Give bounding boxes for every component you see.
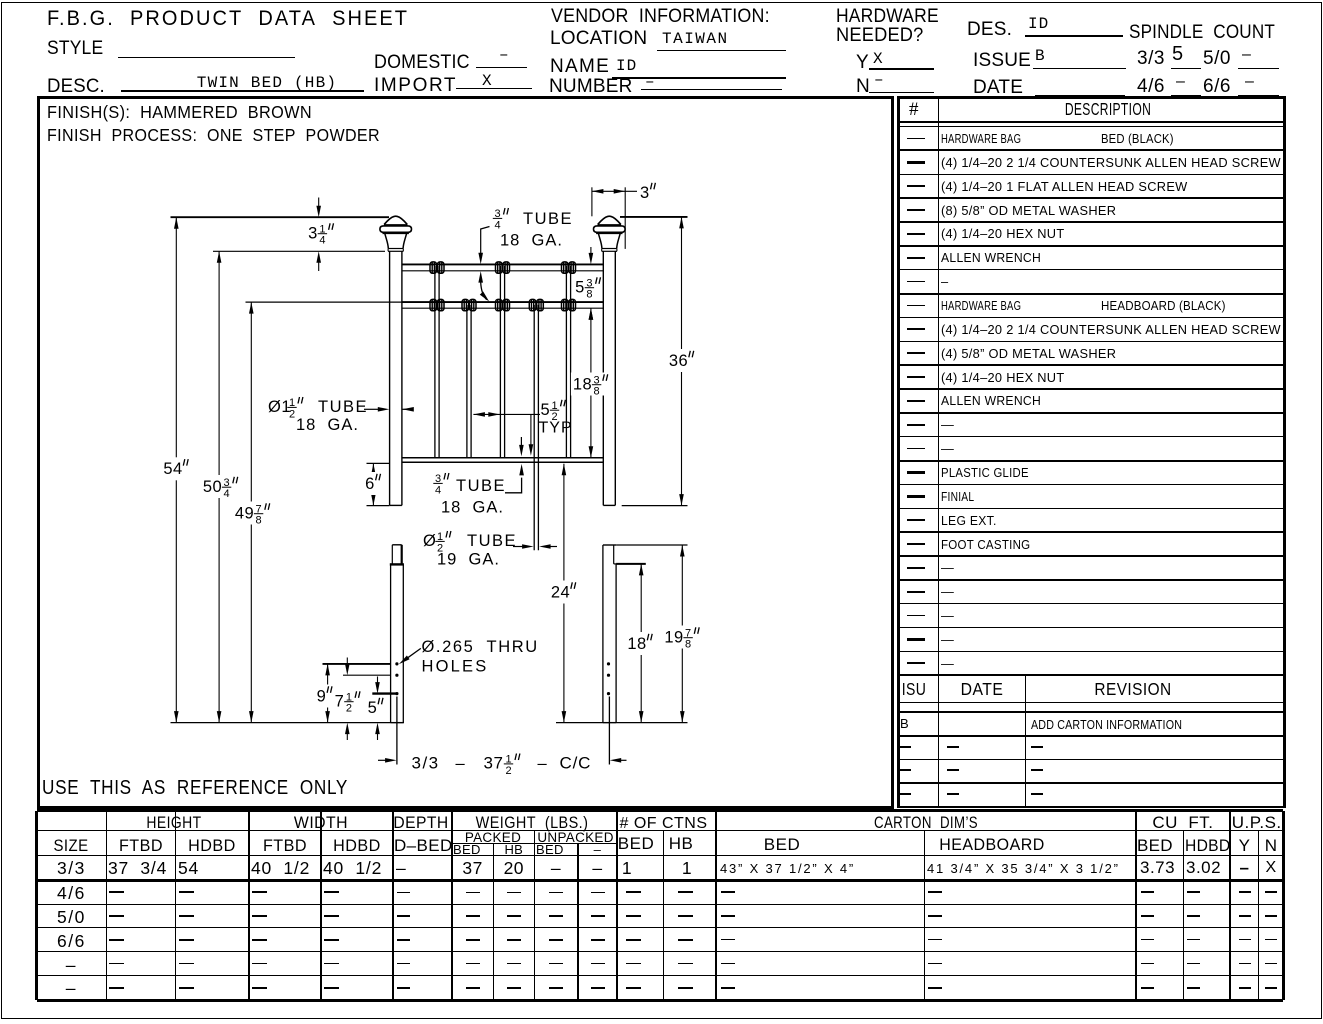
dim 3 1/4 (finial height): [318, 198, 320, 207]
dim 18 3/8: [590, 308, 592, 458]
STYLE field: [47, 39, 103, 60]
svg-text:5: 5: [575, 278, 585, 296]
dim 19 7/8: [616, 544, 687, 546]
IMPORT field: [374, 76, 457, 97]
svg-text:TUBE: TUBE: [467, 532, 517, 550]
collar cluster at (437,305.1): [430, 299, 437, 310]
svg-text:2: 2: [346, 703, 352, 715]
bottom table data rows: [0, 859, 271, 878]
svg-text:8: 8: [685, 639, 691, 651]
dim 6: [367, 462, 390, 464]
DESC field: [47, 77, 105, 98]
rail 1 (3/4 tube): [402, 263, 603, 265]
finial on post at x=395.7: [384, 216, 407, 224]
svg-text:18 GA.: 18 GA.: [500, 232, 563, 250]
svg-text:C/C: C/C: [560, 754, 592, 773]
svg-text:Ø.265 THRU: Ø.265 THRU: [422, 638, 539, 656]
ground baseline: [171, 722, 405, 724]
svg-text:9: 9: [317, 687, 327, 705]
spindle at x=437: [434, 266, 436, 458]
left leg centerline: [396, 697, 398, 765]
collar cluster at (568.5,267.6): [562, 262, 569, 273]
svg-text:TUBE: TUBE: [456, 477, 506, 495]
svg-text:Ø: Ø: [423, 532, 437, 550]
dim 36: [620, 216, 688, 218]
dim 49 7/8: [246, 301, 402, 303]
svg-text:–: –: [456, 755, 466, 773]
right leg holes: [607, 662, 610, 665]
collar cluster at (502.5,305.1): [496, 299, 503, 310]
collar cluster at (437,267.6): [430, 262, 437, 273]
drawing box frame: [37, 96, 894, 809]
svg-text:4: 4: [319, 235, 325, 247]
left leg holes: [395, 662, 398, 665]
collar cluster at (568.5,305.1): [562, 299, 569, 310]
spindle at x=502.5: [499, 266, 501, 458]
VENDOR INFORMATION: [551, 7, 770, 28]
dim 5 1/2 TYP: [473, 413, 540, 415]
revision row B: [897, 735, 1285, 737]
spindle at x=568.5: [565, 266, 567, 458]
collar cluster at (469,305.1): [462, 299, 469, 310]
revision dash rows: [897, 759, 1285, 761]
svg-text:37: 37: [484, 754, 504, 773]
dim 3 (finial width): [591, 187, 593, 216]
svg-text:TYP: TYP: [539, 420, 573, 437]
title: [47, 7, 409, 30]
svg-text:HOLES: HOLES: [422, 658, 489, 676]
bottom table frame: [37, 809, 1284, 812]
collar cluster at (536.3,305.1): [529, 299, 536, 310]
DOMESTIC field: [374, 53, 470, 74]
description header row: [970, 100, 1246, 119]
spindle 4/6 row: [1137, 77, 1165, 98]
lower left leg: [390, 564, 392, 722]
dim 9: [323, 663, 391, 665]
ISSUE field: [973, 51, 1031, 72]
svg-text:18 GA.: 18 GA.: [296, 416, 359, 434]
DATE field: [973, 78, 1023, 99]
spindle 3/3 row: [1137, 49, 1165, 70]
svg-text:2: 2: [505, 765, 511, 777]
dim 50 3/4: [213, 250, 385, 252]
svg-text:4: 4: [494, 219, 500, 231]
SPINDLE COUNT: [1129, 23, 1275, 44]
long drop rod (1/2 tube): [533, 305, 535, 550]
svg-text:19 GA.: 19 GA.: [437, 551, 500, 569]
finial on post at x=609.3: [598, 216, 621, 224]
svg-text:8: 8: [594, 386, 600, 398]
svg-text:3/3: 3/3: [412, 754, 440, 773]
svg-text:TUBE: TUBE: [318, 398, 368, 416]
dim 5: [372, 692, 396, 694]
rail 2: [402, 301, 603, 303]
bottom table header texts: [10, 814, 338, 832]
svg-text:5: 5: [368, 699, 378, 717]
svg-text:8: 8: [256, 515, 262, 527]
right post: [602, 251, 604, 505]
svg-text:18: 18: [627, 635, 646, 653]
svg-text:8: 8: [586, 289, 592, 301]
svg-text:4: 4: [435, 484, 441, 496]
svg-text:18: 18: [573, 375, 592, 393]
dim 54in: [171, 216, 390, 218]
description table frame: [897, 96, 900, 808]
svg-text:5: 5: [541, 401, 551, 419]
collar cluster at (502.5,267.6): [496, 262, 503, 273]
svg-text:3: 3: [640, 184, 650, 202]
dim 5 3/8: [590, 247, 592, 253]
svg-text:4: 4: [224, 488, 230, 500]
dim 7 1/2: [343, 674, 391, 676]
dim 24: [563, 464, 565, 723]
svg-text:7: 7: [335, 692, 345, 710]
svg-text:49: 49: [235, 504, 254, 522]
svg-text:54: 54: [163, 460, 182, 478]
svg-text:6: 6: [365, 475, 375, 493]
svg-text:18 GA.: 18 GA.: [441, 499, 504, 517]
HARDWARE NEEDED?: [836, 7, 939, 28]
svg-text:36: 36: [669, 352, 688, 370]
svg-text:19: 19: [664, 628, 683, 646]
DES field: [967, 20, 1012, 41]
description table rows: [897, 149, 1285, 151]
dim 18 (right leg): [616, 563, 646, 565]
spindle at x=469: [466, 305, 468, 458]
svg-text:2: 2: [289, 408, 295, 420]
svg-text:–: –: [538, 755, 548, 773]
svg-text:24: 24: [551, 583, 570, 601]
ISU DATE REVISION header: [897, 674, 1285, 676]
svg-text:TUBE: TUBE: [523, 210, 573, 228]
svg-text:3: 3: [308, 224, 318, 242]
left post: [389, 251, 391, 505]
dim C/C 37 1/2: [378, 759, 386, 761]
svg-text:50: 50: [203, 478, 222, 496]
right leg centerline: [608, 697, 610, 765]
rail 3 (bottom 3/4 tube): [402, 457, 603, 459]
lower right leg: [602, 545, 604, 723]
